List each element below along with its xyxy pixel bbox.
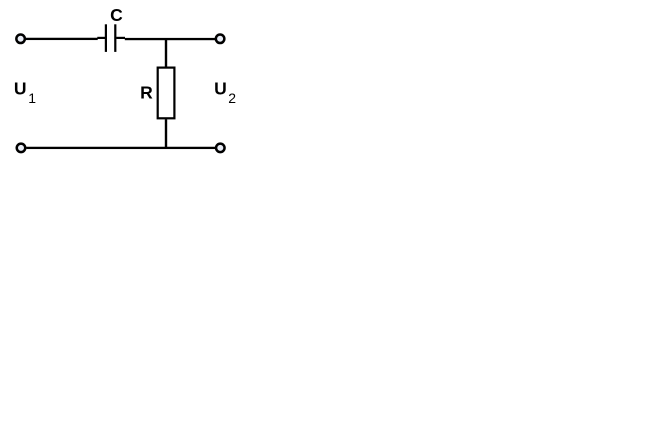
terminal top-left (16, 35, 25, 44)
capacitor C1 left plate (105, 24, 107, 52)
svg-text:C: C (110, 5, 123, 25)
resistor R1 body (158, 68, 175, 119)
wire top-left (input to capacitor) (26, 38, 98, 40)
wire top (capacitor to output terminal) (125, 38, 216, 40)
wire bottom rail (27, 147, 216, 149)
capacitor C1 right plate (114, 24, 116, 52)
wire capacitor right stub (116, 37, 125, 39)
svg-text:1: 1 (28, 90, 36, 106)
wire vertical (top node down to resistor) (165, 38, 167, 67)
terminal bottom-left (17, 144, 26, 153)
terminal bottom-right (216, 144, 225, 153)
svg-text:U: U (14, 79, 27, 99)
svg-text:U: U (214, 79, 227, 99)
svg-text:R: R (140, 83, 153, 103)
wire capacitor left stub (97, 37, 105, 39)
svg-text:2: 2 (228, 90, 236, 106)
wire vertical (resistor to bottom rail) (165, 119, 167, 148)
terminal top-right (216, 35, 225, 44)
